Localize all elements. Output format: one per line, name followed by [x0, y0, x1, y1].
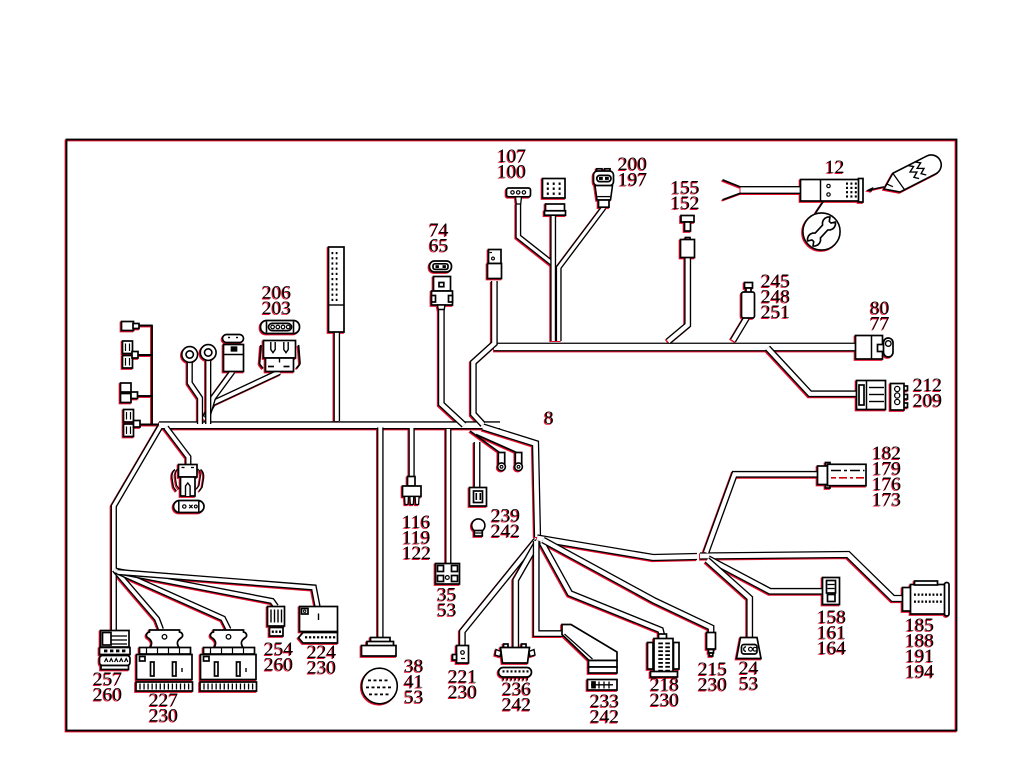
terminal plug 4	[124, 410, 134, 423]
svg-text:200197: 200197	[618, 154, 647, 190]
wire wire 221/230	[462, 540, 536, 646]
wire wire 233/242	[536, 541, 562, 634]
wire lower right trunk	[700, 555, 904, 599]
connector 233/242 comb	[588, 680, 618, 691]
connector 200/197	[597, 169, 603, 172]
connector 227/230 B	[210, 630, 246, 648]
terminal plug 1	[122, 322, 134, 331]
connector 239/242	[470, 488, 487, 507]
svg-text:8077: 8077	[870, 298, 890, 334]
ring terminal 2	[200, 345, 216, 361]
ring terminal 1	[182, 347, 198, 363]
connector 38/41/53 cap	[371, 638, 391, 643]
svg-text:155152: 155152	[671, 178, 700, 214]
connector 155/152 plug	[681, 216, 694, 223]
wire fan 227/230 B	[116, 571, 229, 630]
connector 74/65 plug	[434, 277, 451, 292]
connector 227/230 A	[146, 630, 182, 648]
connector 257/260	[101, 631, 130, 648]
wire fork line 12 upper	[723, 180, 741, 187]
arrow to connector 12	[869, 187, 884, 190]
svg-text:2453: 2453	[739, 658, 759, 694]
connector 24/53	[737, 638, 762, 659]
wire junction feed	[483, 427, 538, 537]
svg-text:8: 8	[544, 408, 554, 429]
connector 158/161/164	[823, 578, 840, 605]
border frame	[67, 140, 957, 731]
wire wire to left hub	[114, 427, 160, 568]
svg-text:239242: 239242	[491, 506, 520, 542]
connector 80/77	[856, 336, 883, 360]
wire wire 158	[708, 559, 823, 592]
wire wire 200/197	[559, 208, 604, 342]
connector 212/209 mate	[904, 386, 908, 391]
svg-text:384153: 384153	[404, 656, 423, 708]
connector 221/230	[457, 646, 469, 664]
svg-text:116119122: 116119122	[402, 512, 431, 564]
connector 74/65 oval	[430, 261, 452, 272]
svg-text:224230: 224230	[307, 642, 336, 678]
connector 206/203 oval	[261, 321, 300, 334]
wrench icon	[803, 213, 840, 250]
svg-text:257260: 257260	[93, 669, 122, 705]
svg-text:206203: 206203	[262, 283, 291, 319]
wire wire 239/242	[474, 442, 481, 488]
bulb 239/242	[472, 519, 485, 532]
wire wire 182	[706, 474, 819, 552]
connector 38/41/53 body	[362, 668, 398, 704]
wire wire strip	[333, 332, 340, 421]
wire wire 12	[741, 186, 801, 194]
wire fork line 12 lower	[723, 193, 741, 200]
wire wire relay	[207, 372, 233, 419]
connector 212/209	[857, 381, 886, 410]
connector 185/188/191/194	[903, 588, 912, 612]
svg-text:185188191194: 185188191194	[905, 615, 934, 682]
wire wire 74/65	[441, 310, 464, 426]
connector 224/230 comb	[299, 633, 338, 644]
svg-text:218230: 218230	[650, 675, 679, 711]
wire wire injector plug	[166, 428, 188, 465]
wire wire 38/41/53	[377, 428, 384, 639]
wire wire 245/248/251	[733, 318, 747, 341]
connector 236/242 pot	[504, 644, 509, 648]
wire bell wire 1	[470, 431, 500, 453]
wire wire 155/152	[668, 258, 688, 342]
wire wire sensor drop	[473, 281, 494, 425]
svg-text:245248251: 245248251	[761, 271, 790, 323]
spark plug tool (pencil)	[879, 151, 944, 197]
wire wrench leader	[816, 201, 824, 213]
svg-text:7465: 7465	[429, 220, 449, 256]
svg-text:227230: 227230	[149, 690, 178, 726]
connector 224/230	[300, 607, 338, 632]
connector 215/230	[707, 633, 716, 650]
svg-text:158161164: 158161164	[817, 607, 846, 659]
svg-text:182179176173: 182179176173	[872, 443, 901, 510]
relay connector	[223, 335, 244, 343]
connector 218/230	[659, 634, 667, 640]
sensor connector (above node 8)	[489, 250, 502, 264]
left terminal column bus	[151, 326, 153, 425]
connector 155/152 body	[686, 238, 691, 242]
terminal plug 3	[121, 383, 132, 392]
svg-text:221230: 221230	[448, 667, 477, 703]
connector 182/179/176/173	[826, 463, 831, 467]
connector 245/248/251	[745, 283, 753, 289]
connector 107/100	[507, 188, 531, 197]
wire fan 227/230 A	[115, 570, 162, 630]
svg-text:12: 12	[825, 157, 844, 178]
wire wire 35/53	[445, 429, 451, 564]
injector capsule	[174, 501, 205, 513]
injector plug (left)	[172, 470, 177, 492]
wire wire ring 1	[190, 362, 200, 424]
wire wire 212/209	[768, 348, 858, 394]
wire wire 107/100	[518, 204, 553, 264]
wire wire ring 2	[205, 360, 211, 424]
wire wire 218/230	[541, 541, 662, 636]
svg-text:3553: 3553	[437, 585, 456, 621]
wire wire 116/119/122	[408, 428, 414, 477]
svg-text:212209: 212209	[913, 375, 942, 411]
matrix connector	[543, 179, 566, 199]
connector 206/203 plug	[260, 345, 262, 364]
wire wire 24/53	[707, 560, 750, 637]
connector 12	[801, 180, 862, 202]
svg-text:236242: 236242	[502, 679, 531, 715]
connector 116/119/122	[408, 477, 416, 487]
wire lower trunk	[537, 538, 697, 558]
terminal plug 2	[123, 341, 133, 354]
wire wire 236/242	[516, 541, 538, 648]
connector 236/242 comb	[499, 668, 532, 678]
svg-text:254260: 254260	[264, 639, 293, 675]
svg-text:233242: 233242	[590, 691, 619, 727]
wire fan 257/260	[111, 568, 117, 630]
svg-text:215230: 215230	[698, 659, 727, 695]
wire wire matrix conn	[550, 215, 556, 341]
wire main trunk right	[494, 343, 857, 352]
wire wire 206/203	[204, 372, 280, 420]
wire fan 224/230	[118, 572, 318, 607]
wire main trunk left	[159, 421, 500, 429]
connector 35/53	[436, 564, 460, 585]
wire bell wire 2	[476, 435, 517, 453]
wire wire 215/230	[543, 540, 711, 633]
connector 233/242 bracket	[562, 625, 617, 661]
wire fan 254/260	[117, 571, 277, 607]
bell terminal 1	[498, 453, 504, 465]
bell terminal 2	[515, 453, 521, 465]
fuse strip connector	[329, 247, 345, 332]
connector 254/260	[268, 607, 285, 627]
svg-text:107100: 107100	[497, 146, 526, 182]
